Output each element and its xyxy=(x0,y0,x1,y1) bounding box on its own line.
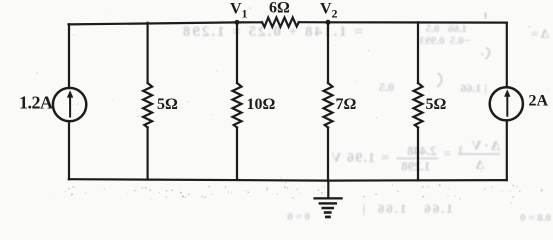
svg-text:1.66 0.5: 1.66 0.5 xyxy=(425,23,467,35)
wire: right branch lower xyxy=(506,120,508,180)
wire: branch 2 upper xyxy=(147,23,149,83)
resistor R3 6ohm (horizontal) xyxy=(262,18,299,27)
svg-text:2: 2 xyxy=(332,7,338,21)
svg-text:V: V xyxy=(230,1,242,18)
svg-text:1.66 1.66 |: 1.66 1.66 | xyxy=(360,201,453,216)
svg-text:0.8 = 0: 0.8 = 0 xyxy=(519,212,551,223)
svg-text:1.2A: 1.2A xyxy=(19,93,53,113)
resistor R4 7ohm (vertical) xyxy=(324,83,333,128)
wire: left branch lower xyxy=(68,121,70,179)
svg-text:2A: 2A xyxy=(529,93,549,110)
svg-text:=: = xyxy=(444,146,451,161)
svg-text:= 1.96 V: = 1.96 V xyxy=(330,151,389,166)
svg-text:5Ω: 5Ω xyxy=(157,96,178,113)
wire: branch 4 upper xyxy=(327,22,329,83)
arrow of current source I2 xyxy=(504,89,510,116)
faint stray marks xyxy=(437,13,490,88)
current source I2 circle xyxy=(490,87,523,120)
ghost line 1: delta determinant equation xyxy=(181,23,549,47)
wire: right branch upper xyxy=(506,23,508,88)
svg-text:Δ =: Δ = xyxy=(531,26,549,41)
resistor R1 5ohm (vertical) xyxy=(143,83,152,128)
arrow of current source I1 xyxy=(67,90,73,117)
svg-text:1: 1 xyxy=(242,7,248,21)
svg-text:V: V xyxy=(320,1,332,18)
svg-text:−0.5 0.993: −0.5 0.993 xyxy=(419,35,470,47)
svg-text:0 = 0: 0 = 0 xyxy=(287,211,310,223)
svg-text:7Ω: 7Ω xyxy=(336,96,357,113)
svg-text:6Ω: 6Ω xyxy=(269,0,290,17)
node V2 junction dot xyxy=(326,20,331,25)
wire: branch 3 upper xyxy=(236,22,238,83)
wire: branch 4 lower xyxy=(327,128,329,181)
wire: top left segment xyxy=(69,22,263,24)
svg-text:5Ω: 5Ω xyxy=(426,96,447,113)
svg-text:Δ: Δ xyxy=(476,157,484,172)
svg-text:Δ·V: Δ·V xyxy=(469,139,500,154)
node V1 junction dot xyxy=(235,20,240,25)
wire: branch 5 lower xyxy=(417,128,419,181)
svg-text:2.448: 2.448 xyxy=(407,143,437,158)
wire: left branch upper xyxy=(68,24,70,88)
svg-text:1.298: 1.298 xyxy=(401,159,431,174)
current source I1 circle xyxy=(53,88,86,121)
wire: branch 5 upper xyxy=(417,22,419,83)
ghost line 3: bottom matrix xyxy=(287,201,551,224)
resistor R5 5ohm (vertical) xyxy=(414,83,423,128)
resistor R2 10ohm (vertical) xyxy=(233,83,242,128)
wire: top right segment xyxy=(299,21,507,24)
wire: branch 3 lower xyxy=(236,128,238,180)
wire: bottom rail xyxy=(69,179,507,180)
faint bleed-through text (mirrored), background layer xyxy=(181,23,551,224)
svg-text:10Ω: 10Ω xyxy=(247,96,276,113)
svg-text:0.5: 0.5 xyxy=(379,80,394,94)
wire: ground stem xyxy=(327,181,329,198)
wire: branch 2 lower xyxy=(147,128,149,180)
ground symbol xyxy=(313,197,342,218)
svg-text:| 1.66: | 1.66 xyxy=(460,81,487,95)
ghost line 2: V1 solve xyxy=(330,139,500,174)
ghost line 1b: second determinant row xyxy=(379,80,487,95)
